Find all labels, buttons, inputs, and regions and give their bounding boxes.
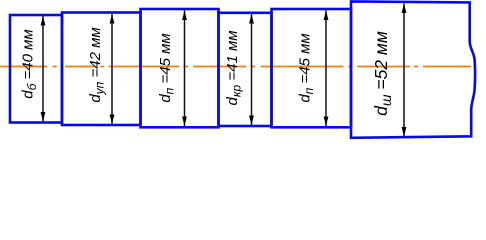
- svg-text:dп =45 мм: dп =45 мм: [157, 33, 177, 102]
- svg-text:dб =40 мм: dб =40 мм: [20, 29, 40, 98]
- svg-text:dуп =42 мм: dуп =42 мм: [87, 27, 107, 102]
- svg-text:dп =45 мм: dп =45 мм: [297, 33, 317, 102]
- svg-text:dш =52 мм: dш =52 мм: [371, 31, 394, 116]
- svg-text:dкр =41 мм: dкр =41 мм: [224, 30, 244, 105]
